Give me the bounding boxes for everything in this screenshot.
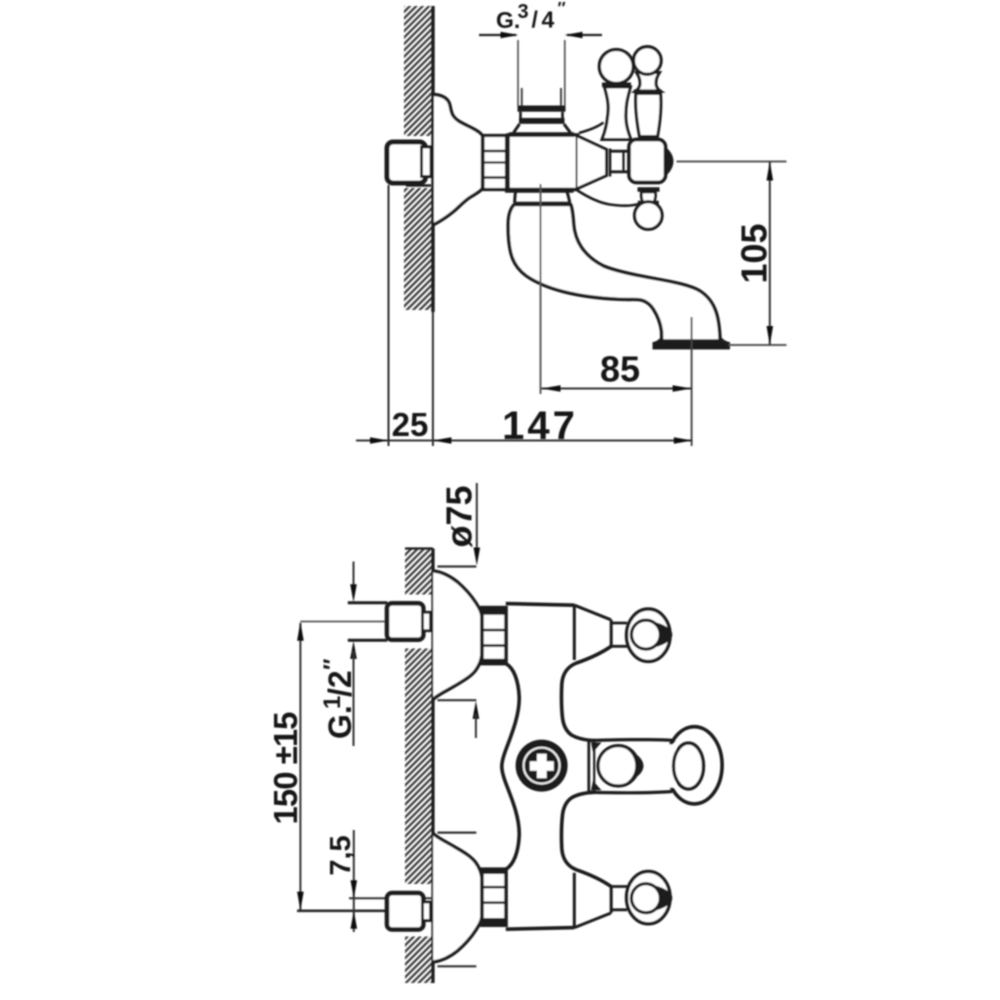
svg-text:″: ″ (319, 658, 346, 670)
svg-text:25: 25 (392, 406, 429, 443)
pivot crescent (627, 750, 644, 783)
body top edge (plan) (506, 604, 575, 606)
105 dimension line (769, 162, 771, 346)
clevis bracket lines (587, 741, 590, 792)
G 1/2 dimension arrows (353, 562, 355, 593)
svg-text:105: 105 (734, 223, 775, 283)
escutcheon bell (side view) (434, 95, 483, 225)
lower baluster ring band (638, 201, 659, 205)
spout arm top edge (plan) (589, 740, 675, 741)
valve body (side view) (508, 135, 578, 190)
top connector flange 1 (518, 106, 566, 112)
label G.1/2" (319, 658, 358, 739)
105 dimension: extension line from flange (729, 344, 787, 346)
top connector flange 2 (519, 118, 565, 124)
G 3/4 dimension line with arrows (479, 34, 516, 36)
svg-text:7,5: 7,5 (325, 835, 357, 875)
white patch hiding ring left arc behind arm (662, 745, 676, 788)
85 dimension line (542, 388, 692, 390)
spout end flange (653, 336, 731, 350)
diameter 75 leader + arrow down (476, 483, 478, 553)
stem (plan) (611, 623, 627, 646)
escutcheon bell (plan) (433, 571, 482, 700)
dark wedge top (591, 743, 602, 753)
escutcheon lip bottom (437, 699, 476, 701)
diverter knob (plan) (516, 740, 568, 792)
147/25 dimension line (356, 440, 692, 442)
hex flat line 3 (483, 176, 507, 179)
wall (hatched section), upper part (404, 6, 432, 136)
squiggle above bonnet (579, 123, 604, 134)
top connector flare (514, 124, 571, 133)
spout ring inner opening (plan) (674, 743, 704, 789)
wall face extension line down to dimension (432, 312, 434, 446)
spout arm bottom edge (plan) (589, 792, 672, 793)
svg-text:4: 4 (542, 7, 555, 33)
body top thick edge (509, 132, 574, 137)
wall face line (431, 6, 434, 312)
lower baluster ball (635, 202, 663, 230)
svg-text:3: 3 (518, 1, 529, 23)
skirt lip line (514, 202, 571, 206)
left extension line from nut (388, 185, 390, 446)
wall face line (plan) (431, 549, 434, 984)
105 dimension: extension line from handle (677, 161, 787, 163)
hex nut on body (side view) (483, 136, 507, 190)
spout neck below body (515, 190, 570, 203)
bottom inlet pipe line upper (349, 897, 474, 899)
svg-text:147: 147 (502, 404, 578, 448)
squiggle below bonnet to knob (578, 191, 641, 206)
diameter 75 bottom arrow up (473, 701, 480, 719)
body centre line down through spout (540, 184, 542, 394)
svg-text:85: 85 (600, 349, 640, 390)
lower baluster neck (641, 192, 655, 203)
svg-text:G.: G. (322, 705, 358, 739)
back baluster of handle (side view) (599, 50, 633, 140)
front baluster of handle (side view) (634, 47, 662, 137)
wall (hatched), between inlets (405, 649, 432, 885)
handle inner circle (plan) (631, 620, 660, 649)
handle outer circle (plan) (627, 609, 671, 661)
150 dimension line (299, 623, 301, 910)
hex nut on body (plan) (482, 608, 506, 664)
7,5 dimension (353, 830, 355, 932)
handle stem (side view) (610, 151, 629, 172)
spout body (508, 205, 720, 342)
top inlet pipe edges (348, 601, 388, 604)
G3/4 extension line right (564, 40, 566, 106)
handle cap crescent (side view) (665, 146, 674, 177)
wall (hatched), above top inlet (405, 549, 432, 595)
cone to handle (plan) (573, 605, 576, 660)
spout ring outer (plan) (667, 727, 723, 804)
inlet collar (plan) (423, 612, 431, 630)
inlet fitting square nut (side view) (387, 142, 426, 183)
inlet fitting collar at wall (422, 147, 432, 177)
svg-text:″: ″ (558, 0, 566, 18)
wall (hatched), below bottom inlet (405, 937, 432, 984)
top connector band (521, 112, 563, 118)
central column left edge (502, 664, 519, 870)
central column right edge above arm (561, 646, 611, 741)
svg-text:/2: /2 (322, 670, 358, 697)
G3/4 extension line left (517, 40, 519, 106)
inlet square nut (plan) (387, 603, 423, 639)
top pipe edge right (560, 88, 562, 106)
right extension line from spout flange (691, 317, 693, 446)
hex flat line 1 (483, 150, 507, 153)
svg-text:150 ±15: 150 ±15 (267, 712, 304, 825)
body bottom thick edge (505, 188, 574, 193)
wall top cap line (405, 547, 433, 549)
central column right edge below arm (561, 792, 611, 887)
svg-text:/: / (532, 7, 539, 33)
pivot circle (plan) (598, 746, 638, 786)
wall (hatched section), lower part (404, 188, 432, 310)
svg-text:ø75: ø75 (439, 485, 480, 547)
cone tip vertical band (609, 149, 612, 177)
lower baluster collar (638, 187, 660, 191)
top inlet centreline (300, 621, 419, 623)
line under nut (406, 184, 431, 186)
bottom inlet pipe line lower / 150 extension (297, 909, 420, 912)
bonnet cone (side view) (578, 136, 607, 189)
dark wedge bottom (591, 781, 602, 791)
top pipe edge left (521, 88, 523, 106)
handle hub (side view) (629, 140, 666, 183)
hex flat line 2 (483, 161, 507, 163)
escutcheon lip top (437, 565, 476, 567)
handle cap crescent (plan) (652, 622, 672, 648)
stem collar lines (624, 152, 629, 171)
